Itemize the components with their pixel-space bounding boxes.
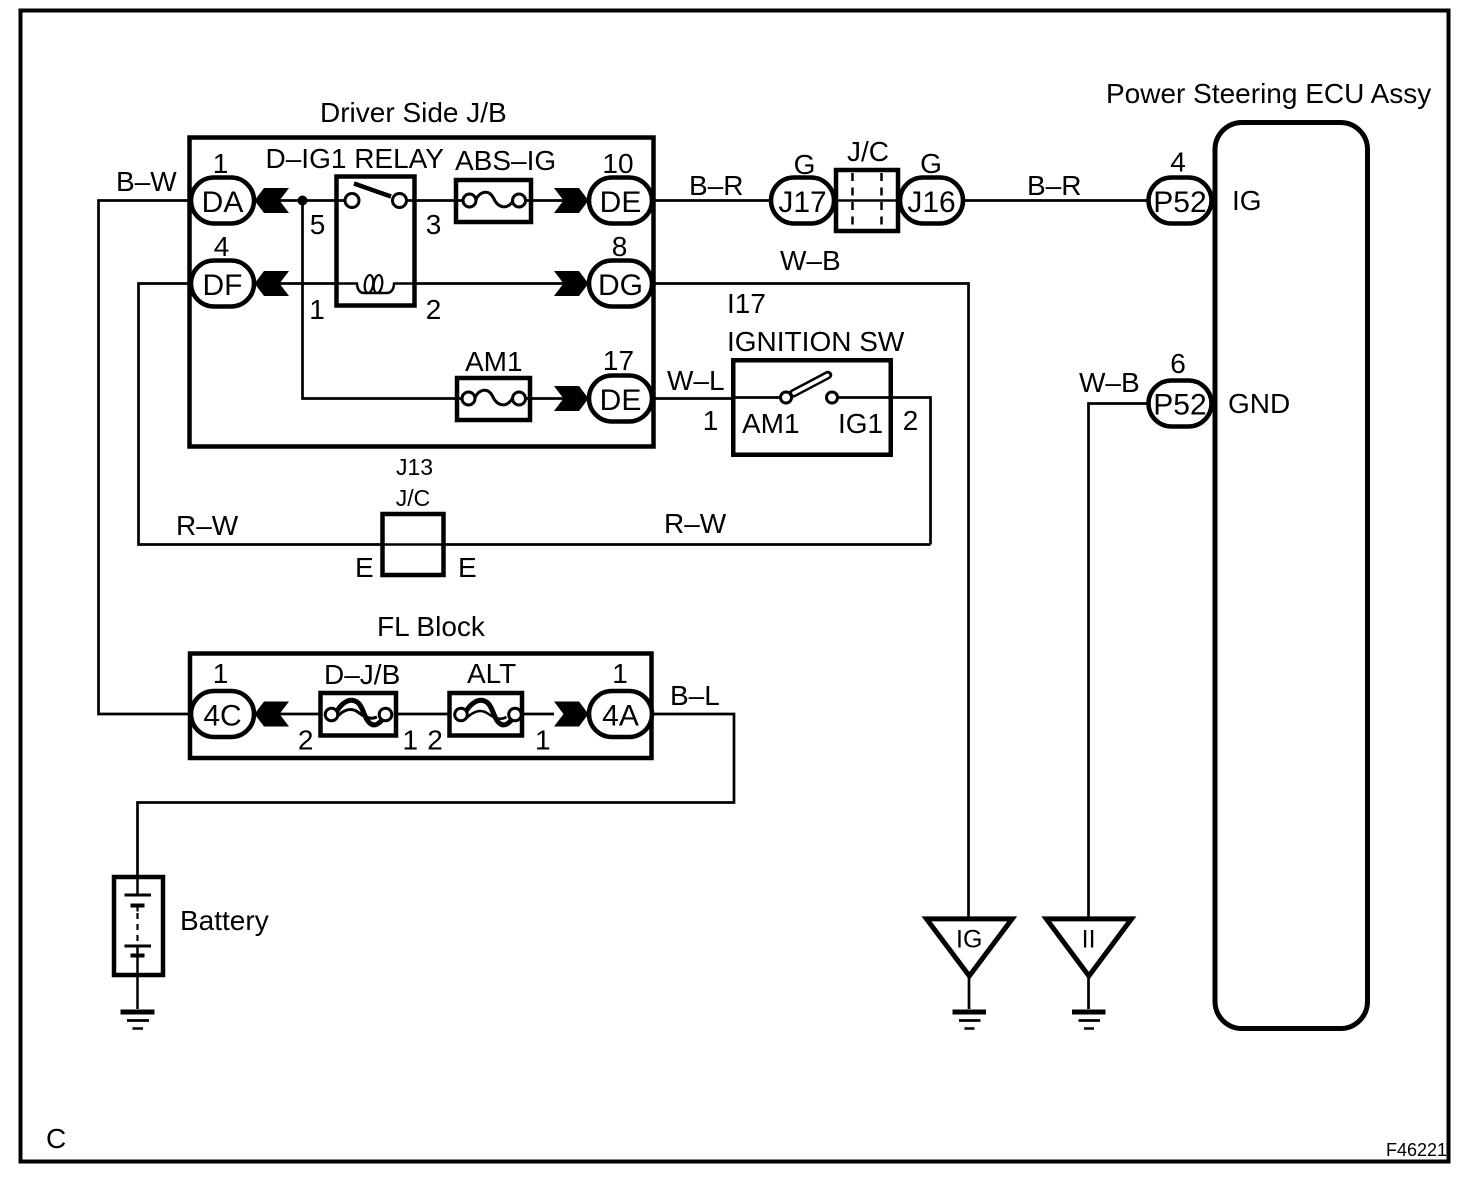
svg-text:10: 10	[602, 148, 633, 179]
wire DF left down to R-W row	[139, 284, 383, 545]
connector 4A	[589, 691, 652, 737]
svg-text:DA: DA	[202, 186, 244, 219]
svg-text:DF: DF	[203, 269, 243, 302]
svg-text:C: C	[46, 1123, 66, 1154]
ground symbol under II	[1072, 1012, 1106, 1029]
connector DE pin 10	[589, 178, 652, 224]
svg-text:4: 4	[1170, 147, 1186, 178]
svg-text:2: 2	[426, 294, 442, 325]
connector J17	[771, 178, 834, 224]
svg-text:1: 1	[213, 658, 229, 689]
svg-text:4: 4	[214, 231, 230, 262]
connector J16	[900, 178, 963, 224]
svg-text:R–W: R–W	[176, 510, 239, 541]
ground point II triangle	[1046, 919, 1131, 976]
svg-text:DE: DE	[600, 384, 642, 417]
connector DE pin 17	[589, 376, 652, 422]
wire B-L from 4A to battery	[138, 714, 735, 877]
svg-text:8: 8	[612, 231, 628, 262]
svg-text:B–L: B–L	[670, 680, 720, 711]
connector DA	[191, 178, 254, 224]
wire B-R from DE10 to J17	[652, 199, 771, 202]
svg-text:R–W: R–W	[664, 508, 727, 539]
battery	[114, 877, 163, 1009]
svg-text:F46221: F46221	[1386, 1140, 1447, 1160]
svg-text:B–R: B–R	[1027, 170, 1081, 201]
svg-text:2: 2	[427, 725, 443, 756]
arrow into DA	[255, 188, 290, 213]
fusible link ALT	[396, 693, 554, 736]
svg-text:B–W: B–W	[116, 166, 177, 197]
svg-text:2: 2	[903, 405, 919, 436]
fusible link block FL Block box	[190, 654, 652, 759]
svg-text:D–J/B: D–J/B	[324, 659, 400, 690]
wire DF to relay pin 1	[254, 282, 336, 285]
svg-text:Battery: Battery	[180, 905, 269, 936]
svg-text:DG: DG	[598, 269, 643, 302]
svg-text:1: 1	[612, 658, 628, 689]
svg-text:W–B: W–B	[780, 245, 841, 276]
svg-text:1: 1	[403, 725, 419, 756]
ignition switch I17	[733, 360, 891, 455]
svg-text:1: 1	[309, 294, 325, 325]
junction block J13 Driver Side J/B box	[190, 138, 654, 447]
junction connector J/C box between J17 and J16	[836, 170, 898, 231]
svg-text:J16: J16	[907, 186, 955, 219]
ground symbol under battery	[121, 1012, 155, 1029]
svg-text:ALT: ALT	[467, 658, 516, 689]
relay coil	[337, 275, 416, 294]
connector DF	[191, 261, 254, 307]
svg-text:IG: IG	[956, 926, 982, 954]
svg-text:ABS–IG: ABS–IG	[455, 145, 556, 176]
arrow into 4C	[255, 702, 290, 727]
svg-text:D–IG1 RELAY: D–IG1 RELAY	[266, 143, 445, 174]
svg-text:1: 1	[535, 725, 551, 756]
connector DG pin 8	[589, 261, 652, 307]
svg-text:AM1: AM1	[465, 346, 523, 377]
arrow into 4A	[554, 702, 589, 727]
svg-text:II: II	[1082, 926, 1096, 954]
svg-text:W–B: W–B	[1079, 367, 1140, 398]
svg-text:W–L: W–L	[667, 365, 725, 396]
wire W-B from P52 pin 6 down to II ground triangle	[1089, 404, 1149, 917]
svg-text:1: 1	[213, 148, 229, 179]
arrow into DG	[554, 271, 589, 296]
svg-text:FL Block: FL Block	[377, 611, 486, 642]
wire DA to relay pin 5	[254, 199, 336, 202]
wire W-L from DE17 to ignition switch	[652, 397, 733, 400]
svg-text:J13: J13	[396, 454, 433, 480]
svg-text:4A: 4A	[602, 700, 639, 733]
svg-text:4C: 4C	[203, 700, 241, 733]
wire ignition switch pin 2 down to R-W row	[891, 398, 931, 545]
svg-text:DE: DE	[600, 186, 642, 219]
arrow into DE17	[554, 386, 589, 411]
wire ABS-IG fuse to DE	[531, 199, 589, 202]
ground symbol under IG	[953, 1012, 987, 1029]
node junction dot at relay pin 5 feed	[298, 196, 308, 206]
ground point IG triangle	[927, 919, 1013, 976]
wire IG triangle to ground	[968, 976, 971, 1009]
arrow into DE10	[554, 188, 589, 213]
ECU Power Steering ECU Assy box	[1215, 123, 1368, 1029]
connector P52 pin 6	[1149, 381, 1212, 427]
svg-text:G: G	[920, 148, 942, 179]
svg-text:3: 3	[426, 209, 442, 240]
svg-text:P52: P52	[1153, 186, 1206, 219]
fusible link D-J/B	[254, 693, 396, 736]
svg-text:G: G	[794, 149, 816, 180]
svg-text:Driver Side J/B: Driver Side J/B	[320, 97, 507, 128]
wire relay pin 2 to DG	[415, 282, 589, 285]
svg-text:P52: P52	[1153, 389, 1206, 422]
fuse ABS-IG	[456, 180, 531, 222]
svg-text:Power Steering ECU Assy: Power Steering ECU Assy	[1106, 78, 1431, 109]
svg-text:IG1: IG1	[838, 408, 883, 439]
relay D-IG1	[337, 177, 415, 306]
fuse AM1	[457, 378, 530, 420]
svg-text:IG: IG	[1232, 185, 1262, 216]
svg-text:GND: GND	[1228, 388, 1290, 419]
svg-text:B–R: B–R	[689, 170, 743, 201]
svg-text:I17: I17	[727, 288, 766, 319]
wire II triangle to ground	[1087, 976, 1090, 1009]
wire from junction down to AM1 fuse row	[303, 201, 458, 399]
wire B-W from DA down-left to 4C	[99, 201, 192, 715]
wire B-R from J16 to P52 pin 4	[963, 199, 1149, 202]
wire relay pin 3 to ABS-IG fuse	[415, 199, 456, 202]
svg-text:J17: J17	[778, 186, 826, 219]
svg-text:2: 2	[298, 725, 314, 756]
svg-text:6: 6	[1170, 348, 1186, 379]
svg-text:E: E	[458, 552, 477, 583]
wire W-B from DG to IG ground triangle	[652, 284, 969, 917]
svg-text:17: 17	[603, 345, 634, 376]
wire AM1 fuse to DE pin 17	[530, 397, 589, 400]
arrow into DF	[255, 271, 290, 296]
connector 4C	[191, 691, 254, 737]
svg-text:J/C: J/C	[847, 136, 889, 167]
svg-text:J/C: J/C	[396, 485, 431, 511]
svg-text:AM1: AM1	[742, 408, 800, 439]
svg-text:E: E	[355, 552, 374, 583]
wire R-W right from E junction to ignition pin 2	[444, 543, 931, 546]
svg-text:IGNITION SW: IGNITION SW	[727, 326, 905, 357]
connector P52 pin 4	[1149, 178, 1212, 224]
svg-text:5: 5	[310, 209, 326, 240]
svg-text:1: 1	[703, 405, 719, 436]
junction connector J13 J/C with E terminals	[383, 514, 444, 575]
